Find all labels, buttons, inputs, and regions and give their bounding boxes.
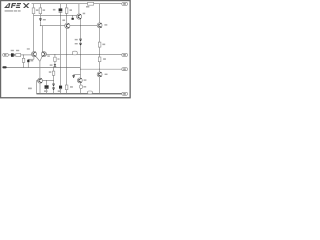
label C7 (83, 86, 86, 87)
junction dots (23, 15, 100, 94)
label R5 (102, 44, 105, 46)
diode D5 (52, 84, 55, 87)
connector J1 input (3, 53, 9, 56)
label R11 (70, 86, 73, 88)
wire D5 D6 chain (53, 67, 55, 93)
label D7 (50, 64, 53, 65)
label C1 (53, 9, 56, 11)
connector J2 output (122, 53, 128, 56)
label Q7 (27, 48, 30, 49)
transistor Q8 (41, 52, 46, 57)
label C3 (11, 50, 14, 51)
resistor R6 (98, 57, 101, 62)
resistor R2 (39, 8, 42, 14)
connector J4 V+ (122, 2, 128, 5)
label Q3 (104, 24, 107, 25)
wire output line (46, 54, 122, 56)
label D1 (43, 19, 46, 20)
wire R2 drop (39, 4, 41, 26)
resistor R11 (65, 85, 68, 90)
connector J5 V- (122, 92, 128, 95)
resistor R12 (72, 51, 77, 55)
label R2 (43, 9, 46, 11)
resistor R8 (22, 58, 25, 62)
label R1 (36, 9, 39, 11)
wire diff emitter diagonals (36, 56, 43, 61)
wire R1 drop (33, 4, 35, 52)
wire VAS rail (40, 25, 97, 27)
connector GND lug (2, 66, 6, 68)
resistor R9 (54, 57, 57, 61)
transistor Q5 (38, 78, 43, 83)
wire D4 hang (73, 74, 75, 77)
label D3 (75, 43, 78, 44)
diode D4 (72, 75, 75, 78)
logo APEX (4, 3, 30, 8)
wire Q3 Q4 column (99, 4, 101, 94)
transistor Q3 (97, 23, 102, 28)
diode D3 (79, 43, 82, 46)
label C6 (58, 90, 61, 92)
label C5 (44, 90, 48, 92)
transistor Q4 (97, 72, 102, 77)
wire bias branch line (37, 80, 54, 82)
wire tail drop (39, 61, 41, 78)
capacitor C6 (59, 86, 62, 90)
wire bias chain drop (80, 19, 82, 78)
transistor Q1 (65, 23, 70, 28)
label Q5 (28, 88, 32, 90)
wire ground rail (3, 66, 81, 68)
wire diff right base drop (42, 26, 44, 52)
label R4 (86, 6, 89, 8)
wire Q5 emitter drop (39, 83, 41, 94)
resistor R10 (52, 71, 55, 75)
capacitor C4 (27, 60, 29, 63)
resistor R7 (16, 54, 21, 57)
resistor R4 (88, 2, 94, 5)
transistor Q6 (77, 78, 82, 83)
label D2 (75, 39, 78, 40)
wire C5 drop (46, 81, 48, 94)
wire Q2 top drop (78, 4, 80, 14)
label Q8 (47, 55, 50, 56)
resistor R5 (98, 42, 101, 47)
capacitor C2 (72, 18, 74, 20)
diode D2 (79, 39, 82, 42)
label R3 (70, 9, 73, 11)
label Q6 (84, 79, 87, 80)
wire bias corner drop (36, 81, 38, 94)
wire Q6 emitter drop (80, 83, 82, 94)
logo subtitle Headphone Amp (5, 10, 21, 11)
resistor R3 (65, 8, 68, 13)
capacitor C3 (11, 53, 15, 57)
wire C4 drop (28, 57, 34, 68)
diode D7 (54, 64, 57, 67)
resistor R1 (32, 8, 35, 14)
transistor Q2 (77, 14, 82, 19)
label Q1 (62, 20, 65, 22)
capacitor C1 (59, 8, 63, 12)
capacitor C5 (45, 85, 49, 89)
wire mid rail (34, 15, 77, 17)
connector J3 return (122, 68, 128, 71)
wire R8 drop (23, 55, 25, 68)
wire V- bottom bus (37, 93, 122, 95)
wire emitter stub (28, 58, 34, 60)
border frame (1, 1, 131, 98)
label R10 (49, 71, 52, 73)
capacitor C7 (80, 85, 83, 89)
wire R3 Q1 drop (66, 4, 68, 94)
resistor R13 (88, 91, 93, 94)
label Q4 (105, 74, 108, 75)
label R6 (103, 58, 106, 60)
wire V+ top bus (32, 3, 122, 5)
label C4 (30, 60, 33, 61)
diode D1 (39, 18, 42, 21)
label Q2 (83, 13, 86, 15)
diode D6 (52, 88, 55, 91)
wire C1 long drop (60, 4, 62, 94)
transistor Q7 (31, 52, 36, 57)
wire R9 D7 drop (54, 55, 56, 65)
wire diode stub (74, 74, 81, 76)
wire C2 stub (72, 16, 74, 18)
label R7 (16, 50, 19, 51)
label R9 (57, 58, 59, 59)
wire input line (8, 54, 31, 56)
wire return line (80, 68, 122, 70)
